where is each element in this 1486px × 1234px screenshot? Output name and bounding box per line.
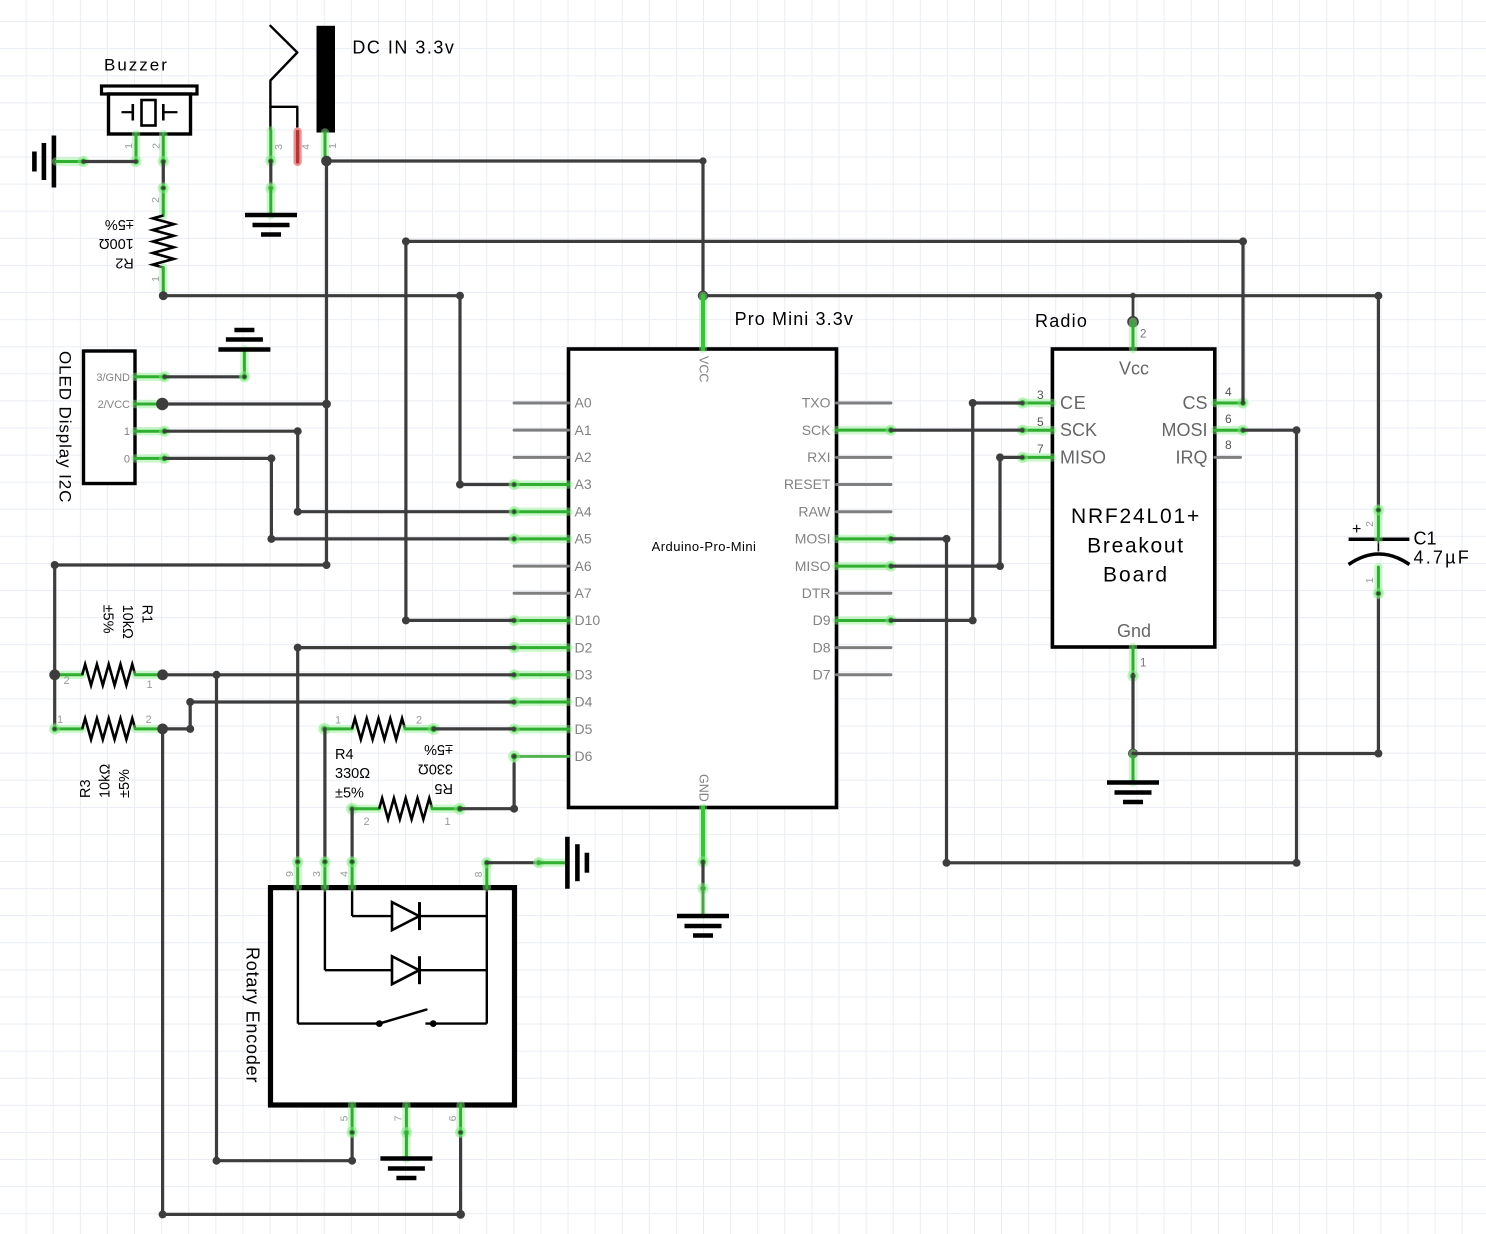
encoder pin 6 (447, 1105, 466, 1138)
label R2 value (rotated 180) (99, 216, 134, 271)
radio pin 7 MISO (1017, 442, 1106, 467)
wire OLED 1 to A4 (165, 427, 515, 516)
svg-text:2: 2 (151, 143, 163, 149)
svg-text:VCC: VCC (696, 356, 710, 382)
svg-text:Gnd: Gnd (1117, 621, 1151, 641)
wire VCC: junction to radio Vcc and C1 (703, 294, 1378, 297)
svg-text:0: 0 (124, 453, 130, 465)
svg-text:6: 6 (1225, 412, 1232, 426)
DC IN barrel jack J1 (270, 26, 455, 133)
svg-text:1: 1 (1140, 657, 1146, 669)
wire SCK: Pro Mini to radio (891, 429, 1023, 432)
wire VCC: down to C1 plus (1374, 292, 1382, 510)
ground (encoder pin 7) (380, 1132, 432, 1178)
wire D9 to radio CE (891, 399, 1023, 624)
junction R1 pin2 / VCC rail (49, 669, 60, 680)
svg-text:7: 7 (1037, 442, 1044, 456)
svg-text:±5%: ±5% (335, 786, 364, 802)
encoder pin 3 (311, 856, 330, 887)
svg-text:R4: R4 (335, 747, 354, 763)
wire R4 pin1 down to encoder pin 3 (323, 729, 326, 862)
svg-text:2: 2 (363, 816, 369, 828)
svg-text:1: 1 (124, 426, 130, 438)
svg-text:A7: A7 (575, 585, 592, 601)
OLED Display I2C module (56, 351, 136, 503)
wire VCC: down to VCC junction (699, 157, 706, 295)
svg-text:100Ω: 100Ω (99, 235, 134, 251)
svg-text:2: 2 (1140, 329, 1146, 341)
encoder pin 4 (338, 856, 357, 887)
svg-text:8: 8 (473, 871, 485, 877)
wire R4 pin2 to D5 (434, 727, 514, 730)
svg-text:A2: A2 (575, 449, 592, 465)
svg-text:Rotary Encoder: Rotary Encoder (243, 947, 263, 1083)
svg-text:D9: D9 (813, 612, 831, 628)
svg-text:1: 1 (123, 143, 135, 149)
wire radio Gnd down to ground junction (1131, 674, 1134, 753)
Pro Mini pin D10 (508, 612, 600, 628)
wire D2 net to encoder pin 9 (294, 644, 514, 862)
svg-text:1: 1 (150, 276, 162, 282)
wire MOSI: Pro Mini to radio (891, 426, 1301, 867)
ground (left of buzzer) (34, 136, 89, 188)
svg-text:2/VCC: 2/VCC (98, 399, 130, 411)
Pro Mini pin TXO (802, 395, 891, 411)
label R4 value (335, 747, 370, 802)
svg-text:7: 7 (393, 1115, 405, 1121)
svg-text:A0: A0 (575, 395, 592, 411)
resistor R1 10kΩ (55, 664, 163, 691)
svg-text:10kΩ: 10kΩ (97, 764, 113, 798)
resistor R2 100Ω (150, 182, 174, 295)
radio pin 3 CE (1017, 388, 1087, 413)
svg-text:Vcc: Vcc (1119, 359, 1149, 379)
svg-text:1: 1 (1364, 577, 1376, 583)
svg-text:Breakout: Breakout (1087, 535, 1185, 558)
Pro Mini pin D6 (508, 748, 593, 764)
Pro Mini pin MOSI (795, 531, 897, 547)
buzzer pin 2 (151, 134, 169, 167)
svg-text:A6: A6 (575, 558, 592, 574)
encoder pin 5 (338, 1105, 357, 1138)
Pro Mini pin DTR (802, 585, 891, 601)
wire VCC: vertical to OLED VCC and pull-up rail (325, 161, 328, 565)
encoder internal: switch (298, 889, 487, 1027)
svg-text:TXO: TXO (802, 395, 831, 411)
Pro Mini pin RAW (798, 503, 891, 519)
resistor R3 10kΩ (49, 714, 163, 739)
svg-text:DTR: DTR (802, 585, 831, 601)
svg-text:4.7µF: 4.7µF (1414, 548, 1471, 568)
Pro Mini pin A5 (508, 531, 591, 547)
svg-text:4: 4 (300, 144, 312, 150)
svg-text:3: 3 (273, 144, 285, 150)
svg-text:R2: R2 (115, 255, 134, 271)
radio pin 6 MOSI (1161, 412, 1248, 440)
svg-text:Radio: Radio (1035, 311, 1088, 331)
svg-text:2: 2 (1364, 521, 1376, 527)
label R3 value (rotated -90) (78, 764, 133, 798)
OLED pin 0 (135, 453, 170, 464)
svg-text:D7: D7 (813, 667, 831, 683)
capacitor C1 4.7µF (1349, 521, 1471, 568)
svg-text:2: 2 (416, 715, 422, 727)
junction radio ground net (1128, 749, 1138, 759)
encoder internal: diode 1 (392, 902, 487, 930)
svg-text:A4: A4 (575, 503, 592, 519)
svg-text:SCK: SCK (1060, 420, 1097, 440)
svg-text:4: 4 (338, 871, 350, 877)
encoder internal: common A line (352, 889, 392, 916)
junction OLED 2/VCC (156, 398, 168, 410)
wire buzzer pin2 to R2 (162, 162, 165, 189)
svg-text:±5%: ±5% (424, 741, 453, 757)
radio pin 8 IRQ (unconnected) (1175, 438, 1240, 467)
svg-text:Arduino-Pro-Mini: Arduino-Pro-Mini (652, 539, 757, 554)
Pro Mini pin A4 (508, 503, 591, 519)
Pro Mini pin A7 (514, 585, 592, 601)
wire MISO: Pro Mini to radio (891, 453, 1023, 570)
svg-text:5: 5 (338, 1115, 350, 1121)
svg-text:330Ω: 330Ω (418, 761, 453, 777)
label R5 value (rotated 180) (418, 741, 453, 796)
wire Pro Mini GND to ground (697, 862, 708, 894)
wire VCC: left rail to R1/R3 (51, 561, 331, 729)
wire encoder pin 8 to ground (487, 857, 544, 868)
svg-text:NRF24L01+: NRF24L01+ (1071, 505, 1201, 528)
wire ground junction to C1 minus (1133, 594, 1382, 758)
encoder internal: diode 2 (392, 956, 487, 984)
radio pin 1 Gnd (1127, 647, 1146, 682)
Pro Mini pin VCC (696, 296, 710, 383)
wire R2 pin1 to A3 (163, 292, 514, 489)
Pro Mini pin A1 (514, 422, 592, 438)
svg-text:MOSI: MOSI (1161, 420, 1207, 440)
wire buzzer pin1 to ground (83, 160, 136, 163)
radio pin 5 SCK (1017, 415, 1097, 440)
buzzer pin 1 (123, 134, 142, 167)
svg-text:1: 1 (327, 143, 339, 149)
svg-text:5: 5 (1037, 415, 1044, 429)
ground (DC jack) (245, 188, 297, 235)
svg-text:GND: GND (696, 774, 710, 802)
svg-text:A1: A1 (575, 422, 592, 438)
svg-text:A5: A5 (575, 531, 592, 547)
svg-text:C1: C1 (1414, 529, 1437, 549)
svg-text:D5: D5 (575, 721, 593, 737)
svg-text:2: 2 (145, 714, 151, 726)
wire OLED 3/GND to ground (165, 375, 245, 378)
svg-text:3: 3 (1037, 388, 1044, 402)
OLED pin 2/VCC (135, 400, 165, 408)
wire D10 to radio CS (402, 237, 1247, 624)
Pro Mini pin RESET (784, 476, 891, 492)
svg-text:D10: D10 (575, 612, 601, 628)
Pro Mini pin A2 (514, 449, 592, 465)
junction R1 pin1 / D3 net (157, 669, 168, 680)
encoder internal: B line (325, 889, 392, 970)
Pro Mini pin RXI (807, 449, 891, 465)
wire R5 pin1 to D6 (460, 764, 518, 813)
ground (Pro Mini) (677, 888, 729, 935)
encoder pin 8 (473, 857, 492, 887)
Pro Mini pin D2 (508, 639, 592, 655)
svg-text:2: 2 (150, 197, 162, 203)
wire VCC: DC jack to Pro Mini VCC column (327, 159, 704, 162)
svg-text:10kΩ: 10kΩ (119, 605, 135, 639)
svg-text:±5%: ±5% (100, 605, 116, 634)
svg-text:R5: R5 (434, 780, 453, 796)
wire DC pin3 to ground (265, 161, 276, 194)
wire D4 net: R3 down to encoder pin 6 (159, 729, 465, 1219)
svg-text:SCK: SCK (802, 422, 831, 438)
rotary encoder SW1 (243, 888, 515, 1105)
resistor R4 330Ω (318, 715, 439, 740)
svg-text:MISO: MISO (1060, 447, 1106, 467)
svg-text:6: 6 (447, 1115, 459, 1121)
Arduino Pro Mini U1 (569, 309, 854, 808)
svg-text:IRQ: IRQ (1175, 447, 1207, 467)
svg-text:Buzzer: Buzzer (104, 56, 169, 75)
encoder pin 9 (284, 856, 303, 887)
junction VCC at radio (1130, 293, 1136, 299)
junction D3 net / encoder pin5 branch (213, 671, 221, 679)
DC jack pin 4 (unused, red) (298, 132, 312, 163)
Pro Mini pin A3 (508, 476, 591, 492)
svg-text:CS: CS (1182, 393, 1207, 413)
svg-text:1: 1 (57, 714, 63, 726)
wire OLED 0 to A5 (165, 454, 515, 543)
ground (radio) (1107, 754, 1159, 803)
svg-text:3/GND: 3/GND (96, 372, 130, 384)
svg-text:RXI: RXI (807, 449, 830, 465)
svg-text:9: 9 (284, 871, 296, 877)
svg-text:±5%: ±5% (117, 769, 133, 798)
svg-text:330Ω: 330Ω (335, 766, 370, 782)
svg-text:2: 2 (63, 675, 69, 687)
svg-text:D2: D2 (575, 639, 593, 655)
radio NRF24L01+ breakout U2 (1035, 311, 1215, 647)
svg-text:±5%: ±5% (105, 216, 134, 232)
Pro Mini pin A0 (514, 395, 592, 411)
svg-text:MISO: MISO (795, 558, 831, 574)
svg-text:D3: D3 (575, 667, 593, 683)
wire D4 net: R3 jog up to D4 (163, 698, 514, 733)
junction R2 pin1 / VCC net (159, 291, 168, 300)
buzzer (102, 56, 198, 135)
C1 pin 1 (-) (1364, 567, 1384, 599)
junction VCC at Pro Mini (698, 291, 708, 301)
OLED pin 1 (135, 426, 170, 437)
DC jack pin 1 (3.3v) (325, 133, 339, 162)
C1 pin 2 (+) (1364, 504, 1384, 539)
svg-text:DC IN 3.3v: DC IN 3.3v (352, 38, 455, 58)
radio pin 4 CS (1182, 385, 1248, 413)
wire R5 pin2 down to encoder pin 4 (351, 809, 354, 862)
svg-text:+: + (1352, 521, 1361, 538)
svg-text:MOSI: MOSI (795, 531, 831, 547)
svg-text:1: 1 (444, 816, 450, 828)
junction R3 pin2 / D4 net (157, 724, 168, 735)
Pro Mini pin D3 (508, 667, 592, 683)
wire D3 net down to encoder pin 5 (213, 675, 357, 1165)
Pro Mini pin D8 (813, 639, 891, 655)
Pro Mini pin D7 (813, 667, 891, 683)
Pro Mini pin D9 (813, 612, 897, 628)
svg-text:8: 8 (1225, 438, 1232, 452)
Pro Mini pin D4 (508, 694, 592, 710)
resistor R5 330Ω (346, 798, 466, 828)
svg-text:1: 1 (335, 715, 341, 727)
svg-text:R1: R1 (139, 605, 155, 624)
svg-text:1: 1 (146, 679, 152, 691)
svg-text:RESET: RESET (784, 476, 831, 492)
svg-text:Pro Mini 3.3v: Pro Mini 3.3v (735, 309, 854, 329)
Pro Mini pin MISO (795, 558, 897, 574)
svg-text:OLED Display I2C: OLED Display I2C (56, 351, 75, 503)
ground (OLED, flipped up) (218, 330, 270, 382)
label R1 value (rotated 90) (100, 605, 155, 639)
svg-text:R3: R3 (78, 779, 94, 798)
wire D3 net: R1 to D3 (163, 673, 514, 676)
Pro Mini pin A6 (514, 558, 592, 574)
wire VCC: OLED 2/VCC branch (162, 400, 331, 409)
svg-text:D8: D8 (813, 639, 831, 655)
svg-text:4: 4 (1225, 385, 1232, 399)
OLED pin 3/GND (135, 371, 170, 382)
svg-text:RAW: RAW (798, 503, 831, 519)
ground (right of encoder) (539, 837, 587, 889)
radio pin 2 Vcc (1127, 296, 1146, 349)
Pro Mini pin D5 (508, 721, 592, 737)
svg-text:D6: D6 (575, 748, 593, 764)
Pro Mini pin GND (696, 774, 710, 868)
svg-text:D4: D4 (575, 694, 593, 710)
svg-text:3: 3 (311, 871, 323, 877)
svg-text:Board: Board (1103, 564, 1169, 587)
DC jack pin 3 (GND) (265, 131, 285, 167)
encoder pin 7 (393, 1105, 412, 1138)
svg-text:CE: CE (1060, 393, 1087, 413)
junction DC pin1 / VCC net (321, 156, 332, 167)
Pro Mini pin SCK (802, 422, 897, 438)
svg-text:A3: A3 (575, 476, 592, 492)
